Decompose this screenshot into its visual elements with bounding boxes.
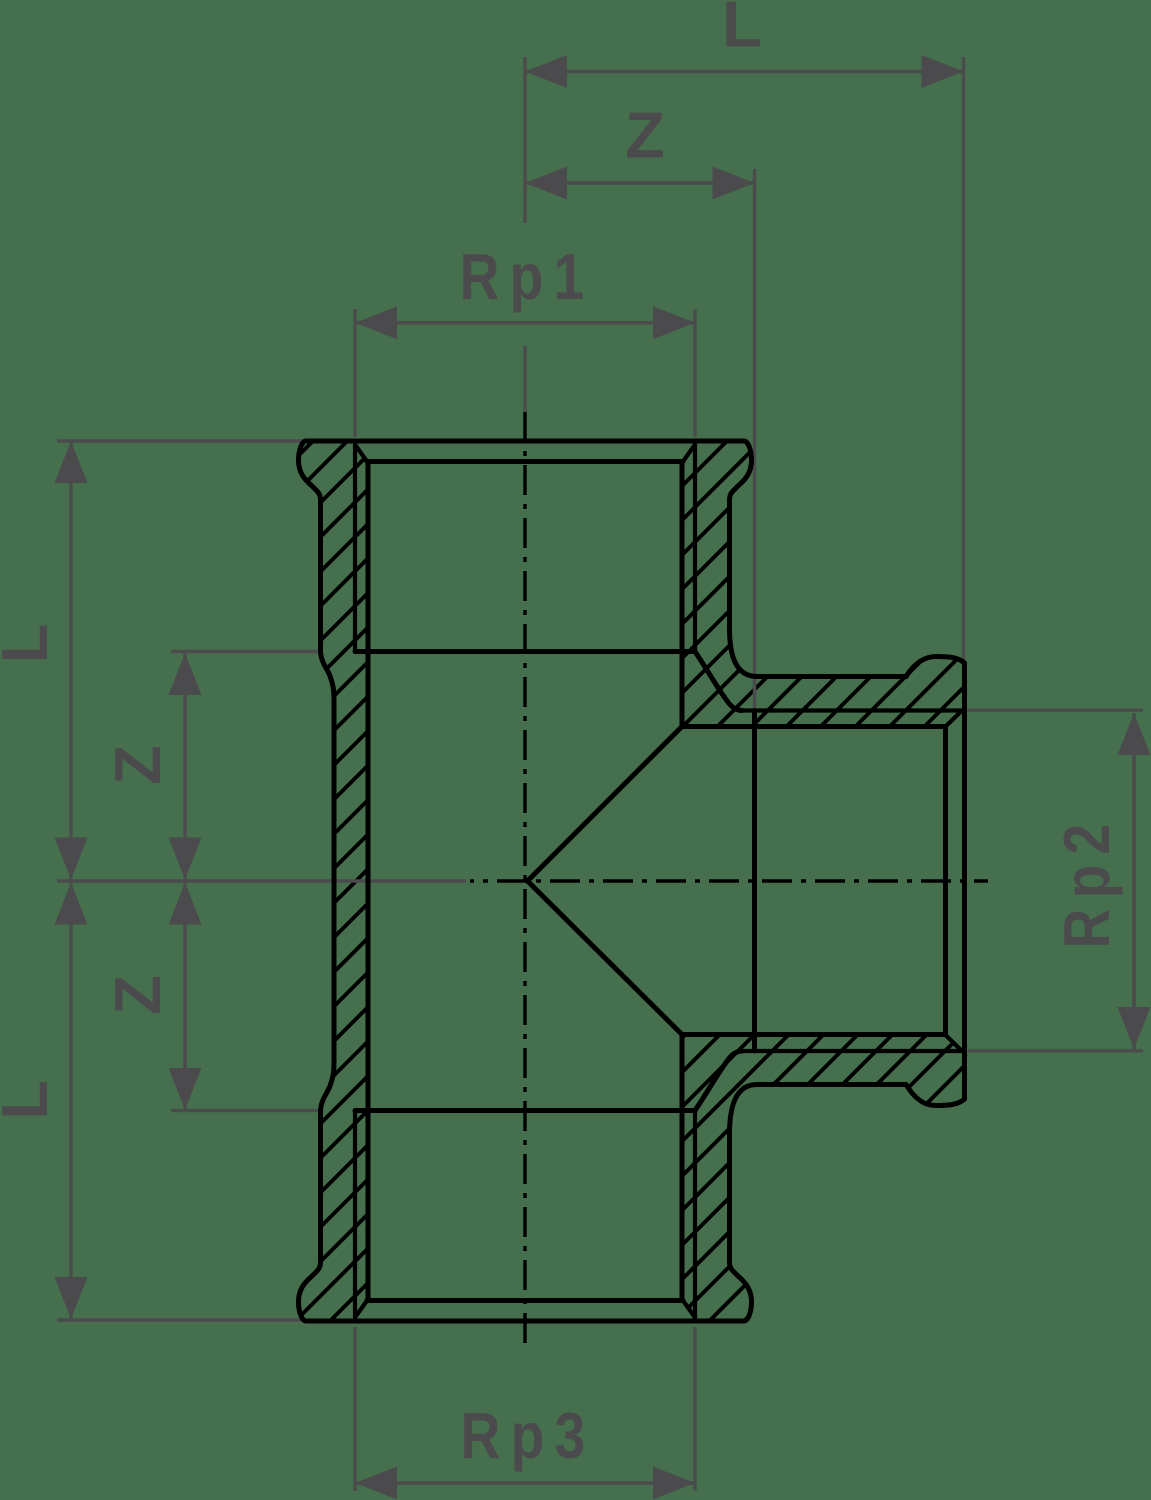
bore line branch upper	[682, 724, 946, 729]
bore line branch lower	[682, 1032, 946, 1037]
dimension Z top: left arrow	[525, 167, 567, 200]
dimension Rp2: line	[1132, 713, 1136, 1049]
dimension Z left: lower center arrow	[169, 883, 202, 925]
chamfer top-right	[683, 445, 695, 462]
dimension Z left: bottom arrow	[169, 1068, 202, 1110]
bore line right upper	[680, 462, 685, 727]
dimension Rp2: top arrow	[1118, 713, 1151, 755]
thread major line branch bottom	[740, 1049, 962, 1053]
chamfer bottom-right	[683, 1301, 695, 1318]
dimension L left: top arrow	[55, 441, 88, 483]
dimension Rp1: right extension line	[693, 309, 696, 437]
dimension L left: upper center arrow	[55, 838, 88, 880]
dimension Rp3: left arrow	[355, 1467, 397, 1500]
chamfer branch top	[946, 711, 963, 727]
svg-text:Rp3: Rp3	[461, 1399, 596, 1472]
thread major line bottom-right	[693, 1111, 697, 1318]
socket shoulder branch	[752, 711, 757, 1052]
dimension Rp2: bottom extension line	[968, 1049, 1144, 1052]
socket shoulder bottom	[355, 1108, 695, 1113]
socket shoulder top	[355, 649, 695, 654]
dimension Rp1: right arrow	[653, 306, 695, 339]
inner fillet top	[695, 652, 742, 711]
dimension Rp3: left extension line	[353, 1327, 356, 1491]
dimension Z top: right arrow	[713, 167, 755, 200]
dimension Rp1: left extension line	[353, 309, 356, 437]
dimension Z top: line	[525, 181, 755, 185]
cone line upper	[528, 727, 683, 882]
dimension L top: line	[525, 70, 964, 74]
bottom socket inner face line	[367, 1298, 683, 1303]
cone line lower	[528, 881, 683, 1035]
horizontal centerline	[470, 879, 988, 882]
thread major line top-right	[693, 445, 697, 652]
tee fitting outer profile	[299, 441, 965, 1321]
dimension Rp2: bottom arrow	[1118, 1007, 1151, 1049]
dimension Rp3: line	[355, 1481, 695, 1485]
top socket inner face line	[367, 459, 683, 464]
svg-text:Rp2: Rp2	[1050, 814, 1123, 949]
dimension Rp3: right extension line	[693, 1327, 696, 1491]
dimension Rp1: line	[355, 321, 695, 325]
dimension Z left: top arrow	[169, 653, 202, 695]
svg-text:L: L	[722, 0, 762, 61]
dimension Z top: right extension line	[753, 169, 756, 709]
chamfer top-left	[355, 445, 367, 462]
dimension L top: right extension line	[962, 57, 965, 661]
extension tick top face	[57, 439, 306, 442]
inner fillet bottom	[695, 1051, 742, 1111]
dimension Z left: upper center arrow	[169, 838, 202, 880]
chamfer bottom-left	[355, 1301, 367, 1318]
svg-text:Z: Z	[625, 99, 665, 172]
dimension Rp2: top extension line	[968, 709, 1144, 712]
dimension L left: bottom arrow	[55, 1277, 88, 1319]
extension tick center	[57, 879, 466, 882]
chamfer branch bottom	[946, 1035, 963, 1051]
extension tick bottom shoulder	[171, 1109, 318, 1112]
branch socket inner face line	[943, 727, 948, 1036]
dimension Rp1: left arrow	[355, 306, 397, 339]
extension tick top shoulder	[171, 650, 318, 653]
dimension Z left: line	[183, 653, 186, 1110]
bore line left	[366, 462, 371, 1301]
svg-text:Z: Z	[101, 745, 174, 785]
dimension L left: line	[69, 441, 72, 1319]
svg-text:L: L	[0, 624, 61, 664]
svg-text:Rp1: Rp1	[460, 240, 595, 313]
dimension L top: right arrow	[922, 55, 964, 88]
svg-text:Z: Z	[101, 975, 174, 1015]
dimension L left: lower center arrow	[55, 883, 88, 925]
extension tick bottom face	[57, 1318, 306, 1321]
vertical centerline	[523, 412, 526, 1352]
bore line right lower	[680, 1035, 685, 1301]
svg-text:L: L	[0, 1080, 61, 1120]
thread major line bottom-left	[353, 1111, 357, 1318]
dimension L top: left extension line	[523, 57, 526, 412]
dimension Rp3: right arrow	[653, 1467, 695, 1500]
dimension L top: left arrow	[525, 55, 567, 88]
thread major line top-left	[353, 445, 357, 652]
thread major line branch top	[740, 708, 962, 712]
